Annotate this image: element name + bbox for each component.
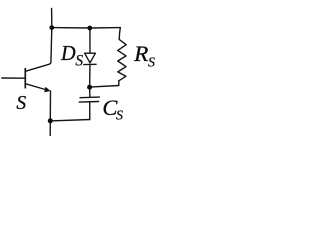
transistor S emitter arrowhead: [44, 87, 50, 93]
svg-text:S: S: [16, 93, 26, 114]
wire: diode anode lead from top rail: [89, 28, 91, 53]
wire: node C down to capacitor top plate: [89, 87, 91, 97]
wire: diode cathode down to node C: [89, 65, 91, 88]
wire: emitter vertical: [49, 91, 51, 119]
wire: bottom rail: [50, 120, 90, 121]
node junction dot A (collector / top rail): [49, 25, 54, 30]
node junction dot B (diode top / top rail): [87, 26, 92, 31]
diode D_S triangle: [85, 53, 96, 63]
wire: top terminal stub: [51, 9, 53, 28]
resistor R_S zigzag: [118, 28, 127, 81]
transistor S base bar: [24, 69, 26, 88]
svg-text:S: S: [75, 53, 83, 70]
wire: bottom terminal stub: [49, 121, 51, 136]
diode D_S cathode bar: [84, 63, 96, 65]
svg-text:S: S: [116, 109, 123, 124]
transistor S emitter lead: [26, 84, 47, 90]
svg-text:S: S: [148, 55, 155, 70]
wire: top rail: [52, 27, 121, 29]
svg-text:D: D: [60, 41, 76, 65]
transistor S base lead: [2, 77, 26, 79]
wire: capacitor bottom lead: [89, 102, 91, 120]
node junction dot D (emitter / bottom rail): [48, 118, 53, 123]
wire: resistor bottom elbow to node C: [90, 81, 119, 87]
node junction dot C (diode / capacitor / resistor): [87, 85, 92, 90]
capacitor C_S top plate: [80, 96, 99, 99]
transistor S collector lead: [26, 28, 52, 72]
svg-text:R: R: [133, 41, 148, 66]
capacitor C_S bottom plate: [79, 101, 98, 104]
